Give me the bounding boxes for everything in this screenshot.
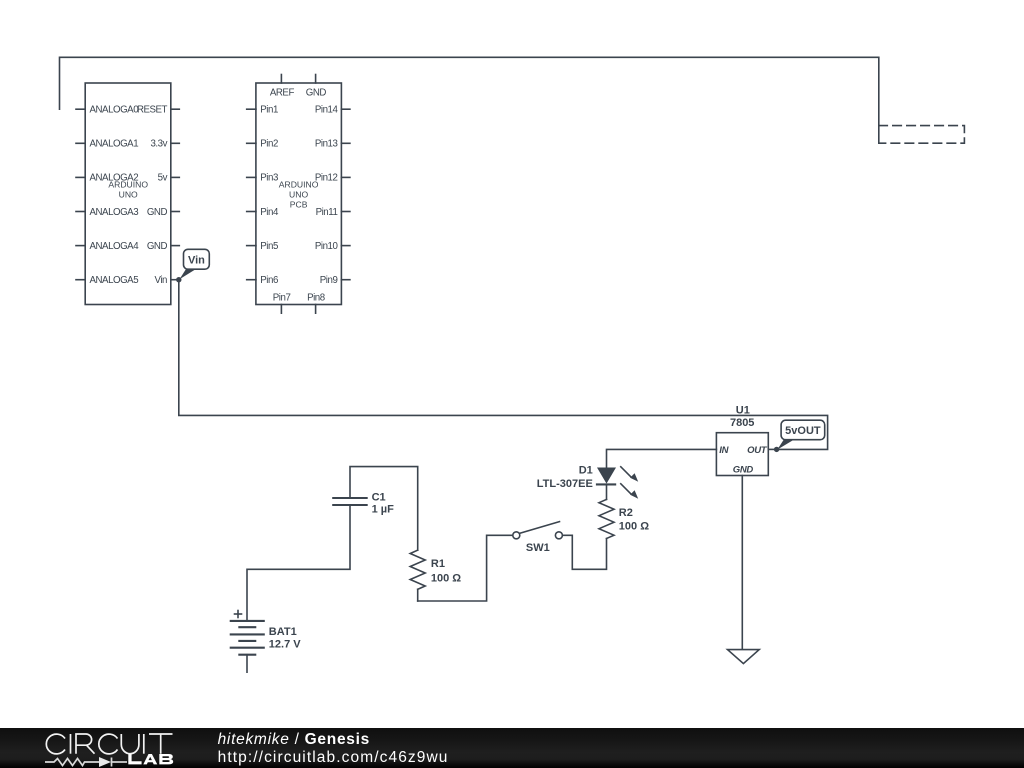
- pin labels left ANALOGA0-5: [90, 105, 140, 287]
- op-amp U1 7805 regulator box: [716, 433, 768, 476]
- svg-text:ANALOGA1: ANALOGA1: [90, 139, 139, 150]
- battery BAT1 plus sign: [235, 613, 242, 615]
- pin labels top AREF GND: [270, 88, 327, 304]
- capacitor C1 plate top: [332, 497, 368, 499]
- svg-text:Vin: Vin: [188, 254, 205, 266]
- wire battery negative stub: [246, 655, 248, 673]
- svg-text:BAT1: BAT1: [269, 626, 297, 638]
- battery BAT1 plate long 1: [230, 620, 265, 622]
- switch SW1 lever: [520, 522, 560, 534]
- svg-text:12.7 V: 12.7 V: [269, 639, 301, 651]
- pin ANALOGA1 stub: [76, 142, 85, 144]
- wire net Vin from Vin pin down across to regulator output: [179, 280, 828, 450]
- svg-text:1 µF: 1 µF: [372, 504, 395, 516]
- diode D1 LED symbol: [597, 468, 616, 484]
- svg-text:GND: GND: [147, 207, 168, 218]
- wire R1 bottom stub: [417, 589, 419, 601]
- LED light arrow 2: [621, 484, 631, 494]
- svg-text:Pin7: Pin7: [273, 293, 291, 304]
- pin Vin stub: [171, 279, 180, 281]
- pin 3.3v stub: [171, 142, 180, 144]
- svg-text:U1: U1: [736, 405, 750, 417]
- pin ANALOGA5 stub: [76, 279, 85, 281]
- pin Pin11 stub: [341, 211, 350, 213]
- pin AREF stub top: [280, 75, 282, 84]
- ground symbol: [728, 650, 760, 664]
- svg-text:UNO: UNO: [119, 190, 138, 200]
- pin OUT stub: [768, 448, 776, 450]
- pin Pin12 stub: [341, 176, 350, 178]
- svg-text:R1: R1: [431, 558, 445, 570]
- svg-text:R2: R2: [619, 507, 633, 519]
- node junction dot at Vin pin: [176, 277, 181, 282]
- svg-text:Pin14: Pin14: [315, 105, 339, 116]
- pin ANALOGA2 stub: [76, 176, 85, 178]
- switch SW1 right contact: [555, 532, 562, 539]
- svg-text:ARDUINO: ARDUINO: [279, 180, 319, 190]
- battery BAT1 plate short 1: [238, 626, 256, 628]
- svg-text:C1: C1: [372, 491, 386, 503]
- battery BAT1 plate short 2: [238, 640, 256, 642]
- svg-text:GND: GND: [733, 464, 754, 475]
- pin Pin7 stub bottom: [280, 305, 282, 314]
- svg-text:UNO: UNO: [289, 190, 308, 200]
- pin 5v stub: [171, 176, 180, 178]
- chip U3 ARDUINO UNO PCB box: [256, 83, 342, 305]
- svg-text:Pin9: Pin9: [320, 275, 338, 286]
- wire net IN from LED anode to regulator input: [607, 449, 717, 467]
- wire switch left terminal to R1 bottom: [418, 535, 513, 601]
- chip U2 ARDUINO UNO box: [85, 83, 171, 305]
- logo LAB text: [128, 754, 173, 764]
- svg-text:ANALOGA3: ANALOGA3: [90, 207, 139, 218]
- resistor R2 zigzag: [599, 499, 614, 538]
- svg-text:100 Ω: 100 Ω: [431, 573, 461, 585]
- svg-text:AREF: AREF: [270, 88, 295, 99]
- svg-text:Pin4: Pin4: [260, 207, 279, 218]
- svg-text:7805: 7805: [730, 417, 754, 429]
- flag Vin label: [184, 249, 210, 269]
- svg-text:3.3v: 3.3v: [150, 139, 167, 150]
- svg-text:ANALOGA5: ANALOGA5: [90, 275, 139, 286]
- wire top-left net from ANALOGA0 area up and across the page: [60, 57, 879, 143]
- svg-text:Pin8: Pin8: [307, 293, 325, 304]
- pin labels right Pin14-9: [315, 105, 339, 287]
- pin Pin8 stub bottom: [315, 305, 317, 314]
- svg-text:IN: IN: [719, 445, 729, 456]
- pin Pin14 stub: [341, 108, 350, 110]
- svg-text:100 Ω: 100 Ω: [619, 521, 649, 533]
- pin ANALOGA0 stub: [76, 108, 85, 110]
- svg-text:LTL-307EE: LTL-307EE: [537, 478, 593, 490]
- svg-text:GND: GND: [147, 241, 168, 252]
- svg-text:5v: 5v: [158, 173, 168, 184]
- pin Pin9 stub: [341, 279, 350, 281]
- svg-text:SW1: SW1: [526, 542, 550, 554]
- svg-text:Pin2: Pin2: [260, 139, 278, 150]
- svg-text:ANALOGA0: ANALOGA0: [90, 105, 140, 116]
- LED light arrow 1: [621, 467, 631, 477]
- diode D1 cathode bar: [596, 483, 616, 485]
- flag 5vOUT label: [781, 420, 825, 440]
- battery BAT1 plate long 2: [230, 633, 265, 635]
- svg-text:5vOUT: 5vOUT: [785, 425, 821, 437]
- svg-text:ARDUINO: ARDUINO: [108, 180, 148, 190]
- svg-text:ANALOGA4: ANALOGA4: [90, 241, 140, 252]
- svg-text:Pin11: Pin11: [316, 207, 338, 218]
- chip U3 name label ARDUINO UNO PCB: [279, 180, 319, 210]
- pin GND stub top: [315, 75, 317, 84]
- pin Pin5 stub: [247, 245, 256, 247]
- switch SW1 left contact: [513, 532, 520, 539]
- flag Vin tail: [180, 268, 196, 279]
- svg-text:Pin6: Pin6: [260, 275, 278, 286]
- pin labels left Pin1-6: [260, 105, 279, 287]
- svg-text:Pin1: Pin1: [260, 105, 278, 116]
- pin Pin6 stub: [247, 279, 256, 281]
- logo resistor-diode glyph: [45, 758, 127, 767]
- svg-text:OUT: OUT: [747, 445, 768, 456]
- pin Pin10 stub: [341, 245, 350, 247]
- wire R2 bottom to switch right terminal: [563, 535, 607, 569]
- wire GND pin of U1 down to ground: [741, 476, 743, 650]
- svg-text:Vin: Vin: [155, 275, 168, 286]
- svg-text:Pin3: Pin3: [260, 173, 278, 184]
- svg-text:D1: D1: [579, 465, 593, 477]
- pin GND2 stub: [171, 245, 180, 247]
- footer bar: [0, 728, 1024, 768]
- flag 5vOUT tail: [777, 439, 792, 449]
- wire D1 cathode to R2: [606, 484, 608, 499]
- logo CIRCUIT text: [46, 734, 172, 754]
- pin RESET stub: [171, 108, 180, 110]
- svg-text:Pin13: Pin13: [315, 139, 338, 150]
- resistor R1 zigzag: [410, 550, 425, 589]
- svg-text:GND: GND: [306, 88, 327, 99]
- svg-text:Pin10: Pin10: [315, 241, 339, 252]
- svg-text:PCB: PCB: [290, 199, 308, 209]
- wire C1 bottom to battery positive: [247, 505, 350, 621]
- pin Pin3 stub: [247, 176, 256, 178]
- pin GND stub: [171, 211, 180, 213]
- ghost component (dashed placeholder box) top right: [879, 126, 965, 144]
- battery BAT1 plate short 3: [238, 654, 256, 656]
- chip U2 name label ARDUINO UNO: [108, 180, 148, 200]
- pin ANALOGA4 stub: [76, 245, 85, 247]
- node junction dot at OUT pin: [774, 447, 779, 452]
- pin labels right RESET 3.3v 5v GND GND Vin: [137, 105, 168, 287]
- svg-text:Pin5: Pin5: [260, 241, 278, 252]
- pin Pin1 stub: [247, 108, 256, 110]
- svg-text:RESET: RESET: [137, 105, 168, 116]
- pin Pin2 stub: [247, 142, 256, 144]
- capacitor C1 plate bottom: [332, 504, 368, 506]
- pin ANALOGA3 stub: [76, 211, 85, 213]
- wire R1 top up and across to C1: [350, 467, 418, 551]
- pin Pin13 stub: [341, 142, 350, 144]
- battery BAT1 plate long 3: [230, 647, 265, 649]
- pin Pin4 stub: [247, 211, 256, 213]
